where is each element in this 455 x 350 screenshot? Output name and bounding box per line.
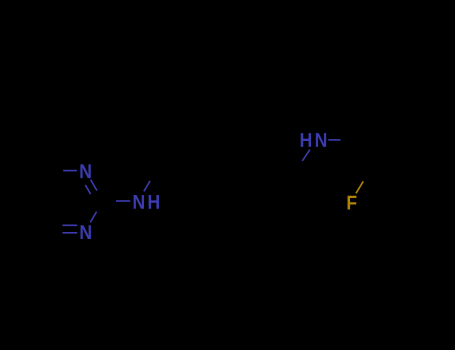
middle ring bond 6 xyxy=(191,171,209,201)
bond N1=C2 main blue half xyxy=(91,180,97,191)
bond C6-N1 blue half xyxy=(63,170,77,172)
right ring inner bond 3 xyxy=(376,115,401,117)
label F xyxy=(348,196,357,210)
right ring bond 5 xyxy=(370,108,405,110)
bond HN-C1p blue half xyxy=(328,139,340,141)
bond C4m-CH2b xyxy=(261,168,298,171)
middle ring inner bond 3 xyxy=(213,193,238,195)
bond C2-N3 blue half xyxy=(90,212,96,223)
bond N3=C4 main blue half xyxy=(62,232,77,234)
bond CH2a-C1m xyxy=(156,170,191,172)
bond N3=C4 inner black half xyxy=(57,224,63,226)
bond CH2b-HN black half xyxy=(297,161,302,168)
label NH - N xyxy=(134,195,144,209)
bond N1=C2 inner black half xyxy=(91,194,95,202)
bond N1=C2 inner blue half xyxy=(85,185,90,194)
bond N3=C4 inner blue half xyxy=(62,224,77,226)
bond C5-C4 xyxy=(33,201,51,231)
bond C6=C5 main xyxy=(33,170,51,200)
label HN - H xyxy=(301,133,311,147)
bond C2p-F black half xyxy=(363,170,370,181)
bond N1=C2 main black half xyxy=(97,191,103,201)
bond C6-N1 black half xyxy=(50,170,63,172)
right ring bond 6 xyxy=(353,109,371,139)
right ring bond 2 xyxy=(370,169,405,171)
label HN - N xyxy=(316,133,326,147)
label NH - H xyxy=(149,195,159,209)
right ring inner bond 1 xyxy=(361,141,373,162)
middle ring bond 3 xyxy=(243,140,261,170)
bond C2-NH black half xyxy=(103,200,116,202)
bond HN-C1p black half xyxy=(341,139,353,141)
bond C2-NH blue half xyxy=(116,200,130,202)
middle ring inner bond 2 xyxy=(240,148,252,169)
bond NH-CH2a black half xyxy=(150,171,156,181)
bond C2p-F olive half xyxy=(356,181,363,193)
bond C2-N3 black half xyxy=(97,201,103,212)
right ring bond 3 xyxy=(405,140,423,170)
label N3 xyxy=(81,225,91,239)
bond C6=C5 inner xyxy=(39,177,51,198)
middle ring bond 1 xyxy=(191,140,209,170)
right ring bond 1 xyxy=(353,140,371,170)
middle ring bond 4 xyxy=(243,171,261,201)
label N1 xyxy=(80,164,90,178)
middle ring bond 2 xyxy=(208,139,243,141)
bond CH2b-HN blue half xyxy=(302,150,310,161)
middle ring inner bond 1 xyxy=(199,148,211,169)
right ring inner bond 2 xyxy=(402,141,414,162)
middle ring bond 5 xyxy=(208,200,243,202)
bond N3=C4 main black half xyxy=(50,232,62,234)
right ring bond 4 xyxy=(405,109,423,139)
bond NH-CH2a blue half xyxy=(144,181,150,192)
